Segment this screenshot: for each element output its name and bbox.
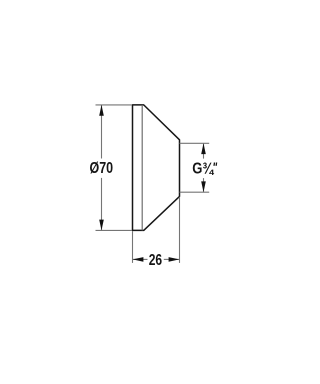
dimension line 26 right segment [164, 258, 179, 260]
extension line right (26) [179, 197, 181, 263]
extension line bottom (G3/4) [180, 191, 210, 193]
flange front face line [141, 105, 143, 230]
svg-text:G¾: G¾ [192, 160, 214, 177]
dimension line G3/4 upper segment [203, 144, 205, 159]
dimension line 26 left segment [133, 258, 148, 260]
svg-text:26: 26 [149, 252, 163, 269]
dimension line dia70 upper segment [101, 105, 103, 158]
extension line left (26) [132, 231, 134, 263]
arrow right 26 [169, 257, 180, 262]
arrow up G3/4 [201, 143, 206, 154]
escutcheon body outline [133, 105, 180, 230]
extension line top (dia 70) [96, 104, 133, 106]
svg-text:Ø70: Ø70 [90, 160, 114, 177]
extension line bottom (dia 70) [96, 229, 133, 231]
arrow down G3/4 [201, 181, 206, 192]
arrow left 26 [133, 257, 144, 262]
dimension line G3/4 lower segment [203, 178, 205, 192]
label inch double prime ticks [213, 163, 216, 166]
dimension line dia70 lower segment [101, 178, 103, 230]
extension line top (G3/4) [180, 142, 210, 144]
arrow down dia70 [99, 220, 104, 231]
arrow up dia70 [99, 105, 104, 116]
